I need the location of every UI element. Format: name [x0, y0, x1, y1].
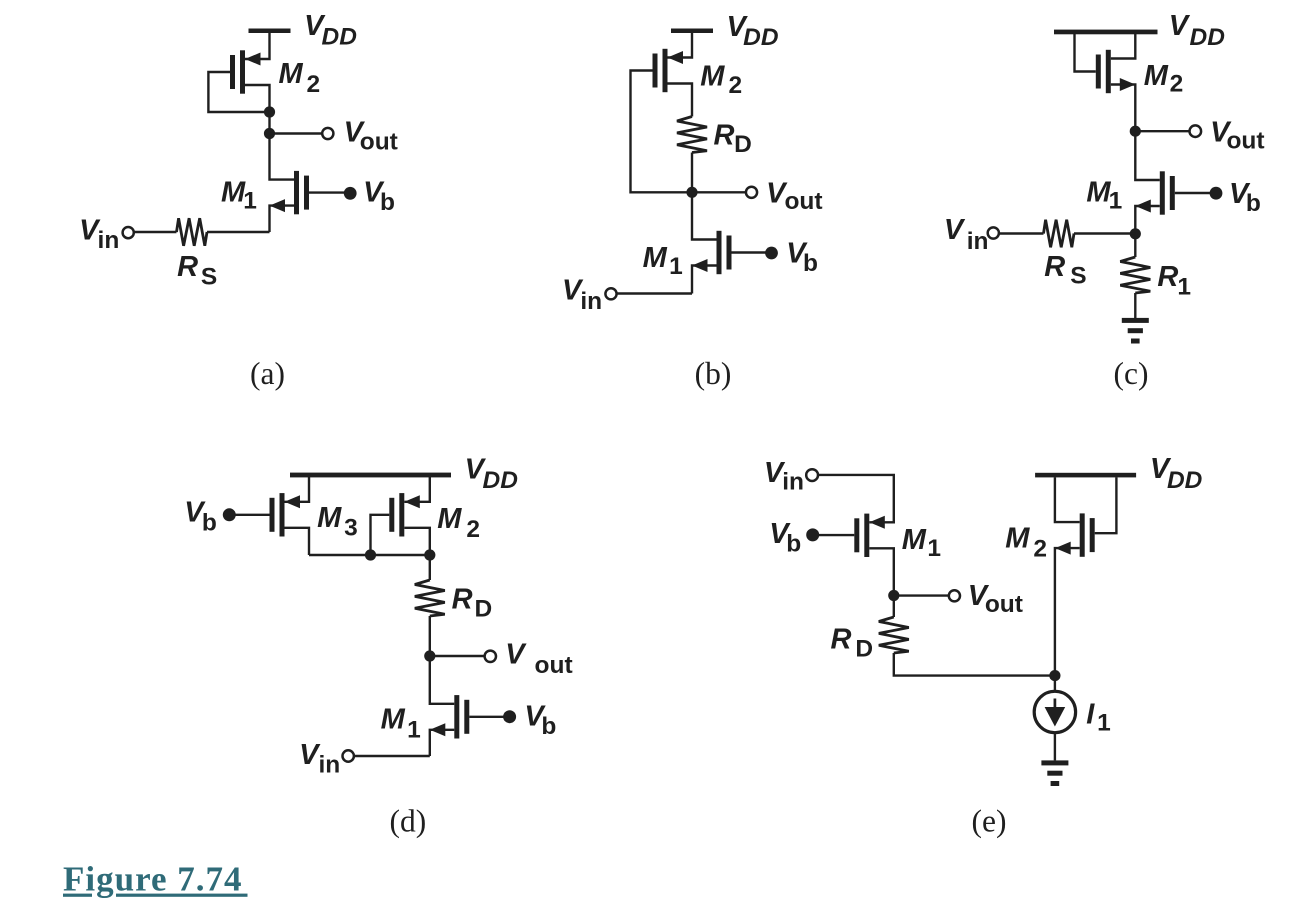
wire M2 source down (e)	[1055, 548, 1080, 676]
transistor M2 (a)	[230, 50, 261, 93]
wire VDD to M2 drain (e)	[1055, 477, 1080, 522]
wire M2 drain down (d)	[404, 528, 430, 580]
node Vout junction (b)	[686, 187, 697, 198]
terminal Vin (a)	[123, 227, 134, 238]
transistor M1 (a)	[270, 171, 310, 214]
wire M2 source down (c)	[1111, 85, 1136, 132]
label M2 (a)	[279, 58, 321, 98]
transistor M3 (d)	[270, 493, 301, 536]
terminal Vout (a)	[322, 128, 333, 139]
wire M3 drain down (d)	[285, 528, 310, 555]
label Vout (b)	[766, 178, 822, 216]
wire M1 drain down (e)	[869, 548, 894, 595]
svg-text:RS: RS	[177, 251, 217, 290]
terminal Vin (b)	[605, 288, 616, 299]
svg-text:M3: M3	[317, 502, 358, 542]
svg-text:I1: I1	[1086, 699, 1110, 737]
svg-text:VDD: VDD	[727, 11, 779, 51]
ground (c)	[1122, 318, 1149, 344]
transistor M1 (d)	[430, 695, 470, 738]
label M1 (d)	[381, 703, 421, 743]
svg-text:Vin: Vin	[299, 739, 340, 778]
label Vb (c)	[1229, 178, 1261, 217]
svg-text:Vin: Vin	[562, 275, 602, 315]
label Vb (b)	[786, 238, 818, 278]
label RS (c)	[1044, 251, 1086, 290]
resistor RD (d)	[415, 580, 445, 616]
svg-text:Vb: Vb	[1229, 178, 1261, 217]
wire RD to M1 drain (b)	[692, 153, 717, 240]
node gate-drain junction (a)	[264, 106, 275, 117]
svg-text:M1: M1	[643, 242, 683, 280]
node Vout junction (e)	[888, 590, 899, 601]
wire resistor to node (c)	[1074, 232, 1135, 234]
resistor RS (c)	[1044, 220, 1075, 248]
wire Vin to resistor (a)	[134, 231, 177, 233]
resistor RD (b)	[677, 117, 707, 153]
wire VDD to M2 gate (c)	[1075, 34, 1096, 72]
figure title underline	[63, 894, 248, 897]
wire VDD to M2 source (a)	[245, 33, 270, 59]
wire Vout stub (c)	[1135, 130, 1190, 132]
svg-text:Vout: Vout	[968, 580, 1023, 618]
svg-text:M1: M1	[381, 703, 421, 743]
svg-text:M2: M2	[279, 58, 321, 98]
svg-text:Vout: Vout	[505, 638, 572, 679]
label RS (a)	[177, 251, 217, 290]
wire node to RD (e)	[893, 596, 895, 618]
wire Vin to resistor (c)	[999, 232, 1044, 234]
transistor M2 (b)	[653, 49, 684, 92]
wire M1 gate to Vb (c)	[1175, 192, 1216, 194]
svg-text:(e): (e)	[972, 803, 1007, 838]
wire Vout stub (a)	[270, 132, 323, 134]
label RD (b)	[714, 120, 752, 158]
label Vin (d)	[299, 739, 340, 778]
transistor M2 (c)	[1096, 50, 1136, 93]
svg-text:M2: M2	[700, 60, 742, 99]
label M1 (b)	[643, 242, 683, 280]
svg-text:R1: R1	[1157, 261, 1191, 300]
label Vin (e)	[764, 457, 804, 496]
vdd bar (e)	[1035, 473, 1136, 478]
node Vout junction (d)	[424, 650, 435, 661]
label Vout (a)	[344, 116, 398, 155]
node Vout junction (a)	[264, 128, 275, 139]
wire M3 gate to Vb (d)	[234, 514, 270, 516]
terminal Vin (d)	[343, 750, 354, 761]
svg-text:Vb: Vb	[769, 518, 801, 558]
svg-text:M1: M1	[221, 177, 257, 215]
svg-text:RD: RD	[452, 583, 493, 622]
wire RD to bottom rail (e)	[894, 653, 1055, 676]
svg-text:Vout: Vout	[766, 178, 822, 216]
svg-text:VDD: VDD	[465, 454, 518, 495]
wire VDD to M2 source (b)	[668, 33, 693, 58]
label VDD (e)	[1150, 453, 1202, 494]
vdd bar (d)	[290, 473, 451, 478]
caption (b)	[695, 356, 732, 391]
label M2 (e)	[1005, 523, 1047, 563]
svg-text:RD: RD	[714, 120, 752, 158]
transistor M1 (c)	[1135, 171, 1175, 214]
wire M2 gate diode loop (a)	[208, 72, 269, 112]
wire RD to Vout node (d)	[429, 616, 431, 656]
wire M1 source down (b)	[692, 266, 717, 294]
wire I1 to ground (e)	[1054, 733, 1056, 761]
transistor M1 (b)	[692, 231, 732, 274]
node source junction (c)	[1130, 228, 1141, 239]
wire M1 gate to Vb (b)	[732, 251, 772, 253]
svg-text:M1: M1	[1086, 177, 1122, 215]
label R1 (c)	[1157, 261, 1191, 300]
wire M1 source down (d)	[430, 730, 455, 756]
svg-text:(c): (c)	[1114, 356, 1149, 391]
transistor M2 (d)	[389, 493, 420, 536]
node Vb dot (d M1)	[503, 710, 516, 723]
svg-text:(b): (b)	[695, 356, 732, 391]
vdd bar (a)	[249, 29, 291, 34]
svg-text:(a): (a)	[250, 356, 285, 391]
node Vout junction (c)	[1130, 126, 1141, 137]
svg-text:Vb: Vb	[786, 238, 818, 278]
wire node to R1 (c)	[1134, 234, 1136, 257]
node Vb dot (a)	[344, 187, 357, 200]
label M2 (d)	[437, 503, 480, 543]
svg-text:M1: M1	[902, 524, 941, 562]
node Vb dot (c)	[1210, 187, 1223, 200]
wire Vout stub (d)	[430, 655, 485, 657]
label Vout (c)	[1210, 117, 1264, 155]
svg-text:Vin: Vin	[944, 214, 989, 255]
resistor R1 (c)	[1120, 257, 1150, 293]
label M1 (a)	[221, 177, 257, 215]
label VDD (c)	[1169, 10, 1225, 51]
svg-text:Vout: Vout	[1210, 117, 1264, 155]
label Vout (d)	[505, 638, 572, 679]
label RD (d)	[452, 583, 493, 622]
wire Vout stub (e)	[894, 594, 949, 596]
wire node to M1 drain (d)	[430, 656, 455, 704]
label I1 (e)	[1086, 699, 1110, 737]
caption (a)	[250, 356, 285, 391]
wire Vout stub (b)	[692, 191, 746, 193]
svg-text:RD: RD	[831, 623, 874, 662]
wire M1 gate to Vb (a)	[309, 191, 350, 193]
label Vb (a)	[363, 177, 395, 216]
transistor M2 (e)	[1055, 513, 1095, 556]
wire M2 gate loop to Vout node (b)	[631, 71, 693, 193]
vdd bar (b)	[671, 29, 713, 34]
wire M2 source to VDD (d)	[404, 477, 430, 502]
label M1 (e)	[902, 524, 941, 562]
wire M3 source to VDD (d)	[285, 477, 310, 502]
svg-text:M2: M2	[1005, 523, 1047, 563]
label M1 (c)	[1086, 177, 1122, 215]
node Vb dot (e)	[806, 528, 819, 541]
figure title	[63, 860, 243, 899]
wire Vin to M1 source (b)	[616, 292, 692, 294]
wire M1 source down (c)	[1135, 206, 1160, 234]
label VDD (d)	[465, 454, 518, 495]
svg-text:(d): (d)	[390, 803, 427, 838]
wire M2 gate loop down (d)	[371, 515, 390, 555]
caption (c)	[1114, 356, 1149, 391]
wire M2 drain to RD (b)	[668, 84, 693, 117]
label Vb (d M1)	[524, 701, 556, 741]
transistor M1 (e)	[854, 514, 885, 557]
wire node to M1 drain (c)	[1135, 131, 1160, 180]
svg-text:Vb: Vb	[184, 497, 217, 537]
label Vin (b)	[562, 275, 602, 315]
wire R1 to ground (c)	[1134, 293, 1136, 318]
terminal Vin (e)	[806, 469, 818, 481]
resistor RD (e)	[879, 617, 909, 653]
current source I1 (e)	[1034, 691, 1075, 732]
label M3 (d)	[317, 502, 358, 542]
svg-text:Vout: Vout	[344, 116, 398, 155]
terminal Vout (e)	[949, 590, 960, 601]
resistor RS (a)	[177, 218, 208, 246]
label RD (e)	[831, 623, 874, 662]
wire M2 drain down to M1 drain (a)	[245, 85, 294, 180]
vdd bar (c)	[1054, 30, 1158, 35]
label M2 (c)	[1144, 60, 1184, 98]
wire M1 source down (a)	[270, 206, 295, 232]
terminal Vin (c)	[988, 227, 999, 238]
wire M2 drain to VDD (c)	[1111, 34, 1136, 59]
svg-text:Vb: Vb	[524, 701, 556, 741]
wire resistor to M1 source (a)	[207, 231, 270, 233]
wire M2 gate to VDD (e)	[1095, 477, 1117, 533]
svg-text:Vin: Vin	[79, 214, 119, 254]
caption (e)	[972, 803, 1007, 838]
node drain junction (d)	[424, 549, 435, 560]
node gate junction (d)	[365, 549, 376, 560]
label VDD (a)	[304, 10, 357, 51]
node Vb dot (b)	[765, 247, 778, 260]
node Vb dot (d M3)	[223, 508, 236, 521]
svg-text:VDD: VDD	[304, 10, 357, 51]
label Vb (d M3)	[184, 497, 217, 537]
wire M1 gate to Vb (d)	[469, 716, 509, 718]
label Vout (e)	[968, 580, 1023, 618]
node I1 junction (e)	[1049, 670, 1060, 681]
wire Vin to M1 source (d)	[354, 755, 430, 757]
wire node line (d)	[309, 554, 430, 556]
label Vin (c)	[944, 214, 989, 255]
wire M1 gate to Vb (e)	[813, 534, 855, 536]
svg-text:VDD: VDD	[1150, 453, 1202, 494]
label Vb (e)	[769, 518, 801, 558]
svg-text:VDD: VDD	[1169, 10, 1225, 51]
ground (e)	[1041, 760, 1068, 786]
svg-text:M2: M2	[437, 503, 480, 543]
terminal Vout (d)	[485, 651, 496, 662]
svg-text:Vin: Vin	[764, 457, 804, 496]
svg-text:Vb: Vb	[363, 177, 395, 216]
wire node to I1 (e)	[1054, 676, 1056, 692]
label M2 (b)	[700, 60, 742, 99]
label Vin (a)	[79, 214, 119, 254]
svg-text:M2: M2	[1144, 60, 1184, 98]
terminal Vout (b)	[746, 187, 757, 198]
terminal Vout (c)	[1190, 125, 1202, 137]
svg-text:Figure 7.74: Figure 7.74	[63, 860, 243, 899]
caption (d)	[390, 803, 427, 838]
label VDD (b)	[727, 11, 779, 51]
svg-text:RS: RS	[1044, 251, 1086, 290]
wire Vin to M1 source (e)	[818, 475, 894, 522]
